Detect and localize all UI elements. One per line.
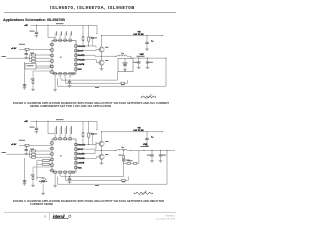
- capacitor CEN (FIG8): [25, 51, 28, 56]
- svg-text:U1: U1: [60, 57, 62, 59]
- resistor RPGM1 (FIG8): [30, 53, 51, 59]
- pin labels above top pins (FIG8): [55, 31, 72, 35]
- svg-text:LO: LO: [122, 53, 124, 55]
- transistor Q2 low-side (FIG8): [98, 56, 108, 65]
- svg-text:ISL95870, ISL95870A, ISL95870B: ISL95870, ISL95870A, ISL95870B: [50, 5, 135, 10]
- svg-text:UGATE: UGATE: [78, 54, 86, 57]
- svg-text:SENSE COMPONENTS SET FOR 1.05V: SENSE COMPONENTS SET FOR 1.05V AND 15A A…: [30, 104, 111, 108]
- resistor RBOOT (FIG9): [88, 121, 90, 145]
- svg-text:LGATE: LGATE: [78, 162, 85, 165]
- capacitor CBOOT (FIG8): [89, 37, 98, 46]
- ground CVCC (FIG9): [35, 131, 39, 134]
- capacitor COUT2 (FIG8): [146, 58, 153, 66]
- node PGM input (FIG9): [2, 152, 30, 154]
- footer intersil logo: [53, 214, 71, 219]
- svg-text:+5V: +5V: [24, 121, 28, 123]
- wire OFS branch (FIG9): [37, 166, 45, 180]
- potentiometer RNTC (FIG8): [141, 95, 156, 100]
- svg-text:UGATE: UGATE: [78, 153, 86, 156]
- svg-text:VCC: VCC: [78, 167, 83, 169]
- node +5V rail (FIG9): [24, 121, 97, 131]
- svg-text:PHASE: PHASE: [78, 157, 86, 160]
- pins right column with names (FIG8): [75, 45, 86, 71]
- resistor ROFS to gnd (FIG9): [31, 167, 51, 184]
- ground CEN (FIG8): [24, 56, 28, 59]
- resistor RPGD (FIG8): [19, 48, 51, 51]
- caption figure 9 line 2: [30, 202, 53, 206]
- ground Q2 source (FIG9): [100, 159, 104, 164]
- wire PHASE pin (FIG9): [77, 150, 95, 153]
- wire UGATE (FIG8): [77, 50, 98, 51]
- ground COUT2 (FIG8): [146, 66, 150, 69]
- footer separator: [49, 213, 51, 220]
- resistor RPGM2 (FIG9): [29, 153, 51, 155]
- node +3.3V input (FIG8): [11, 44, 25, 50]
- node VOUT rail (FIG9): [131, 144, 176, 151]
- wire BOOT to gate node (FIG8): [89, 46, 97, 48]
- svg-text:CURRENT SENSE: CURRENT SENSE: [30, 202, 53, 206]
- load box current sense (FIG8): [118, 58, 133, 71]
- pins top row VCC/PVCC/BOOT (FIG9): [54, 134, 71, 140]
- capacitor CCOMP (FIG9): [68, 176, 72, 184]
- resistor ROFS1 (FIG9): [37, 160, 51, 167]
- inductor LO (FIG8): [115, 53, 131, 56]
- capacitor CEN (FIG9): [25, 147, 28, 152]
- pins left column EN/PGM (FIG8): [49, 43, 53, 73]
- pins right column with names (FIG9): [75, 143, 86, 169]
- wire VCC feed (FIG8): [48, 25, 55, 37]
- svg-text:U1: U1: [60, 155, 62, 157]
- wire sense join (FIG9): [123, 150, 139, 163]
- wire UGATE (FIG9): [77, 144, 98, 149]
- wire FB upper (FIG8): [61, 72, 118, 80]
- capacitor COUT2 (FIG9): [159, 150, 166, 159]
- resistor RBOOT (FIG8): [88, 25, 90, 46]
- capacitor CVCC (FIG9): [30, 121, 39, 130]
- node VOUT rail (FIG8): [131, 54, 167, 59]
- svg-text:CIN: CIN: [151, 40, 154, 42]
- ground CIN (FIG9): [145, 144, 149, 147]
- potentiometer RNTC (FIG9): [134, 191, 153, 196]
- wire FB upper (FIG9): [61, 166, 124, 177]
- resistor RPGM2 (FIG8): [29, 57, 51, 59]
- wire VCC feed (FIG9): [48, 121, 55, 133]
- op-amp U1 ISL95870B (FIG8): [52, 41, 76, 74]
- transistor Q1 high-side (FIG8): [98, 36, 108, 53]
- footer doc number: [165, 216, 175, 218]
- label RVCC (FIG8): [56, 22, 64, 25]
- svg-text:3.3V TO 25V: 3.3V TO 25V: [133, 130, 144, 132]
- pins left column EN/PGM (FIG9): [49, 142, 53, 172]
- connector box setpoint (FIG8): [25, 64, 51, 70]
- resistor RPGM3 (FIG8): [30, 58, 51, 62]
- ground CVCC (FIG8): [35, 35, 39, 38]
- pins top row VCC/PVCC/BOOT (FIG8): [54, 36, 71, 42]
- svg-text:3.3V TO 25V: 3.3V TO 25V: [133, 34, 144, 36]
- pin labels above top pins (FIG9): [55, 126, 72, 134]
- wire VSEN return (FIG8): [58, 58, 167, 88]
- svg-text:December 28, 2009: December 28, 2009: [156, 217, 176, 220]
- inductor LO (FIG9): [115, 147, 131, 150]
- pins bottom row FB/COMP/GND (FIG8): [54, 73, 74, 79]
- resistor RPGM1 (FIG9): [30, 149, 51, 155]
- footer page number: [44, 214, 46, 218]
- node PHASE (FIG8): [95, 52, 116, 57]
- svg-text:Applications Schematics: ISL95: Applications Schematics: ISL95870B: [3, 18, 65, 22]
- svg-text:+5V: +5V: [24, 25, 28, 27]
- wire LGATE (FIG9): [77, 157, 98, 159]
- wire BOOT to gate node (FIG9): [89, 142, 97, 145]
- svg-text:+3.3V: +3.3V: [11, 48, 17, 50]
- svg-text:LO: LO: [122, 147, 124, 149]
- caption figure 8 line 1: [13, 101, 169, 105]
- resistor ROFS to gnd (FIG8): [31, 71, 51, 88]
- footer date: [156, 217, 176, 220]
- wire LGATE (FIG8): [77, 60, 98, 63]
- node PHASE (FIG9): [95, 146, 116, 151]
- ground ROFS2 (FIG9): [31, 184, 35, 187]
- transistor Q1 high-side (FIG9): [98, 132, 108, 147]
- capacitor CSEN DCR sense (FIG9): [122, 160, 130, 166]
- node +3.3V input (FIG9): [11, 140, 25, 146]
- pins bottom row FB/COMP/GND (FIG9): [54, 171, 74, 177]
- ground FB pin (FIG8): [53, 78, 57, 91]
- resistor RPGM3 (FIG9): [30, 154, 51, 158]
- svg-text:FN6899.2: FN6899.2: [165, 216, 175, 218]
- resistor RPGD (FIG9): [19, 144, 51, 147]
- node VIN rail (FIG8): [101, 31, 163, 36]
- resistor RFB (FIG9): [66, 177, 129, 183]
- ground ROFS (FIG9): [41, 192, 45, 195]
- ground CEN (FIG9): [24, 152, 28, 155]
- potentiometer RNTC offset (FIG9): [39, 179, 47, 192]
- capacitor CVCC (FIG8): [30, 25, 39, 34]
- resistor ROFS2 (FIG9): [37, 163, 51, 165]
- op-amp U1 ISL95870B (FIG9): [52, 139, 76, 172]
- label RVCC (FIG9): [56, 118, 64, 121]
- capacitor CCOMP (FIG8): [68, 80, 72, 88]
- caption figure 9 line 1: [13, 199, 164, 203]
- ground COUT1 (FIG9): [150, 160, 154, 163]
- capacitor CIN (FIG8): [145, 36, 153, 48]
- resistor RPGOOD pullup (FIG8): [77, 25, 88, 46]
- header rule: [4, 12, 176, 14]
- ground FB pin (FIG9): [53, 177, 57, 188]
- capacitor CIN (FIG9): [145, 132, 153, 144]
- svg-text:PHASE: PHASE: [78, 59, 86, 62]
- section heading: [3, 18, 65, 22]
- ground COUT2 (FIG9): [159, 160, 163, 163]
- resistor RSEN DCR sense (FIG9): [119, 150, 125, 160]
- wire EN run (FIG8): [24, 62, 27, 86]
- ground Q2 source (FIG8): [100, 65, 104, 70]
- resistor RNTCS (FIG9): [127, 160, 137, 164]
- ground COUT1 (FIG8): [137, 66, 141, 69]
- ground CIN (FIG8): [145, 48, 149, 51]
- svg-text:VCC: VCC: [78, 69, 83, 71]
- node PGM input (FIG8): [2, 56, 30, 58]
- wire VSEN return (FIG9): [58, 150, 168, 186]
- svg-text:LGATE: LGATE: [78, 63, 85, 66]
- ground ROFS2 (FIG8): [31, 88, 35, 91]
- ground EN (FIG8): [23, 85, 27, 90]
- svg-text:CIN: CIN: [151, 137, 154, 139]
- capacitor COUT1 (FIG8): [134, 58, 141, 66]
- ground EN (FIG9): [23, 181, 27, 186]
- svg-text:+3.3V: +3.3V: [11, 144, 17, 146]
- resistor RFB (FIG8): [66, 78, 128, 85]
- wire EN run (FIG9): [24, 158, 27, 182]
- header part numbers: [50, 5, 135, 10]
- resistor RPGOOD pullup (FIG9): [77, 121, 88, 145]
- capacitor CBOOT (FIG9): [89, 133, 98, 145]
- transistor Q2 low-side (FIG9): [98, 150, 108, 159]
- node +5V rail (FIG8): [24, 25, 97, 35]
- svg-text:VOUT: VOUT: [143, 144, 147, 146]
- capacitor COUT1 (FIG9): [147, 150, 154, 159]
- svg-text:9: 9: [44, 214, 46, 218]
- wire PHASE pin (FIG8): [77, 55, 95, 56]
- caption figure 8 line 2: [30, 104, 111, 108]
- node VIN rail (FIG9): [101, 128, 163, 133]
- footer rule: [4, 211, 176, 213]
